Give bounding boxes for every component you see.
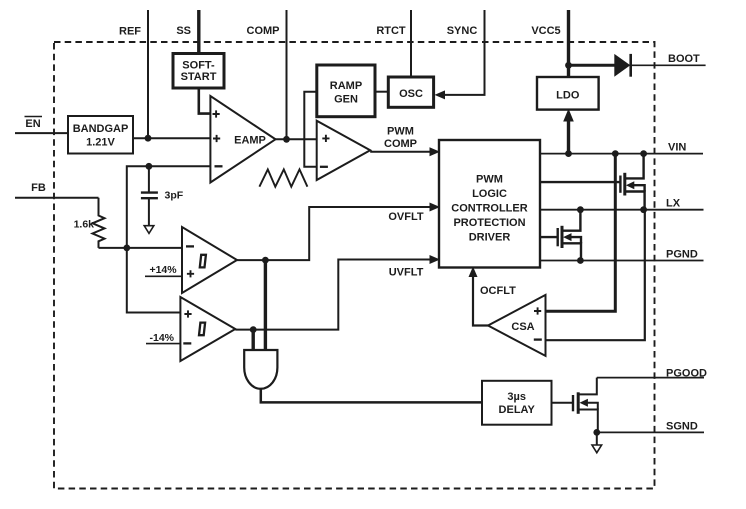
wire UVFLT from -14% comparator to PWM logic block xyxy=(235,260,431,330)
junction LX/low-side FET drain xyxy=(577,206,584,213)
node OVFLT label xyxy=(388,211,424,223)
wire RAMP GEN to PWM comparator - input xyxy=(304,92,317,167)
comparator +14% (OV) xyxy=(182,227,237,293)
arrowhead SYNC into OSC xyxy=(435,90,446,99)
svg-text:GEN: GEN xyxy=(334,94,358,106)
block BANDGAP 1.21V xyxy=(68,116,133,154)
wire COMP pin vertical xyxy=(286,10,288,140)
junction SGND/PGOOD FET source xyxy=(593,429,600,436)
wire PGOOD rail xyxy=(597,377,704,379)
svg-text:CSA: CSA xyxy=(511,321,534,333)
pin BOOT label xyxy=(668,53,700,65)
wire EN pin horizontal xyxy=(15,132,68,134)
pin SYNC label xyxy=(447,25,478,37)
wire VIN rail xyxy=(540,153,703,155)
wire PGND rail xyxy=(540,260,704,262)
svg-text:EAMP: EAMP xyxy=(234,135,266,147)
transistor Q2 low-side MOSFET xyxy=(558,210,581,261)
pin RTCT label xyxy=(376,25,406,37)
svg-text:RTCT: RTCT xyxy=(376,25,406,37)
op-amp CSA current sense amplifier xyxy=(488,295,546,356)
svg-text:PWM: PWM xyxy=(476,174,503,186)
pin SS label xyxy=(176,25,191,37)
arrowhead into LDO bottom xyxy=(563,109,574,122)
svg-text:3pF: 3pF xyxy=(165,189,184,201)
svg-text:OCFLT: OCFLT xyxy=(480,285,516,297)
svg-text:BOOT: BOOT xyxy=(668,53,700,65)
pin SGND label xyxy=(666,421,698,433)
junction VIN/CSA riser xyxy=(612,150,619,157)
pin LX label xyxy=(666,198,681,210)
wire gate drive to low-side FET xyxy=(540,236,558,238)
node UVFLT label xyxy=(389,266,424,278)
pin COMP label xyxy=(247,25,280,37)
wire SGND junction down to ground xyxy=(596,432,598,445)
svg-text:SYNC: SYNC xyxy=(447,25,478,37)
svg-text:SOFT-: SOFT- xyxy=(182,60,215,72)
svg-text:PROTECTION: PROTECTION xyxy=(453,217,525,229)
pin EN label with overline xyxy=(25,117,43,131)
svg-text:1.21V: 1.21V xyxy=(86,137,115,149)
label +14% with input stub xyxy=(145,264,182,276)
transistor Q1 high-side MOSFET xyxy=(620,154,644,210)
wire CSA + input from VIN (thick riser) xyxy=(546,154,616,312)
junction VIN/high-side FET drain xyxy=(640,150,647,157)
svg-text:CONTROLLER: CONTROLLER xyxy=(451,203,527,215)
pin PGOOD label xyxy=(666,367,707,379)
junction REF/BANDGAP xyxy=(145,135,152,142)
arrowhead OVFLT into PWM logic block xyxy=(430,203,441,212)
svg-text:UVFLT: UVFLT xyxy=(389,266,424,278)
capacitor C 3pF xyxy=(141,166,184,225)
block RAMP GEN xyxy=(317,65,375,117)
svg-text:DRIVER: DRIVER xyxy=(469,231,511,243)
svg-text:OVFLT: OVFLT xyxy=(388,211,424,223)
wire SGND rail xyxy=(597,431,704,433)
junction OVFLT to AND gate xyxy=(262,257,269,264)
wire RTCT pin vertical xyxy=(410,10,412,78)
svg-text:EN: EN xyxy=(25,118,40,130)
wire BANDGAP output to EAMP + input xyxy=(133,137,210,139)
junction FB node xyxy=(123,245,130,252)
label -14% with input stub xyxy=(146,332,180,344)
wire CSA output OCFLT to PWM logic block bottom xyxy=(473,276,488,326)
block 3us DELAY xyxy=(482,381,552,425)
svg-text:COMP: COMP xyxy=(247,25,280,37)
node OCFLT label xyxy=(480,285,516,297)
junction VCC5/BOOT xyxy=(565,62,572,69)
svg-text:1.6k: 1.6k xyxy=(74,219,95,231)
ground arrow below SGND xyxy=(592,445,602,453)
junction PGND/low-side source xyxy=(577,257,584,264)
wire SYNC pin vertical and horizontal into OSC xyxy=(443,10,485,95)
svg-text:+14%: +14% xyxy=(149,264,177,276)
wire CSA - input from LX xyxy=(546,210,645,341)
svg-text:SGND: SGND xyxy=(666,421,698,433)
svg-text:-14%: -14% xyxy=(149,332,174,344)
comparator -14% (UV) xyxy=(180,297,235,361)
svg-text:BANDGAP: BANDGAP xyxy=(73,123,129,135)
wire OVFLT from +14% comparator to PWM logic block xyxy=(237,207,431,260)
svg-text:START: START xyxy=(181,71,217,83)
wire EAMP output to PWM comparator + input xyxy=(276,138,317,140)
junction UVFLT to AND gate xyxy=(250,326,257,333)
junction LX/high-side source and CSA - riser xyxy=(640,206,647,213)
wire AND gate output to 3us delay block xyxy=(261,389,482,402)
arrowhead OCFLT into PWM logic block xyxy=(469,267,478,278)
wire FB node up and to EAMP - input xyxy=(127,166,211,248)
wire FB node to +14% comparator - input xyxy=(127,247,182,249)
junction VIN/LDO riser xyxy=(565,150,572,157)
arrowhead UVFLT into PWM logic block xyxy=(430,255,441,264)
wire RAMP GEN to OSC xyxy=(375,91,388,93)
block SOFT-START xyxy=(173,54,224,89)
svg-text:PGOOD: PGOOD xyxy=(666,367,707,379)
diode D1 bootstrap xyxy=(614,54,630,77)
block LDO xyxy=(537,77,599,110)
wire SS pin vertical (thick) xyxy=(197,10,200,55)
block OSC xyxy=(388,77,433,107)
wire LX rail xyxy=(540,209,704,211)
wire SOFT-START to EAMP + input xyxy=(199,88,211,114)
svg-text:FB: FB xyxy=(31,182,46,194)
wire VCC5 pin vertical (thick) xyxy=(567,10,570,78)
svg-text:LOGIC: LOGIC xyxy=(472,188,507,200)
wire PWM COMP output to PWM logic block xyxy=(370,151,431,153)
junction capacitor tap on EAMP - wire xyxy=(146,163,153,170)
ramp waveform symbol xyxy=(259,169,307,186)
svg-text:VCC5: VCC5 xyxy=(531,25,560,37)
op-amp EAMP xyxy=(210,96,275,183)
node PWM COMP label xyxy=(384,126,417,151)
pin FB label xyxy=(31,182,46,194)
wire resistor bottom to FB node xyxy=(99,247,127,249)
svg-text:VIN: VIN xyxy=(668,142,686,154)
arrowhead PWM COMP into PWM logic block xyxy=(430,147,441,156)
block PWM LOGIC CONTROLLER PROTECTION DRIVER xyxy=(439,140,540,268)
wire VIN to LDO with up arrow (thick) xyxy=(567,119,570,154)
pin VIN label xyxy=(668,142,686,154)
IC boundary dashed border xyxy=(54,42,655,489)
wire VCC5 junction to boot diode (thick) xyxy=(569,64,616,67)
wire gate drive to high-side FET xyxy=(540,181,620,183)
wire REF pin vertical xyxy=(147,10,149,138)
ground arrow below capacitor xyxy=(144,226,154,234)
svg-text:RAMP: RAMP xyxy=(330,80,362,92)
resistor 1.6k xyxy=(74,198,105,248)
pin REF label xyxy=(119,25,141,37)
wire diode cathode to BOOT pin xyxy=(631,64,706,66)
svg-text:SS: SS xyxy=(176,25,191,37)
svg-text:3µs: 3µs xyxy=(507,391,526,403)
wire FB pin horizontal xyxy=(15,197,99,199)
op-amp PWM comparator xyxy=(317,121,371,180)
svg-text:PWM: PWM xyxy=(387,126,414,138)
svg-text:PGND: PGND xyxy=(666,249,698,261)
transistor Q3 PGOOD MOSFET xyxy=(552,378,598,433)
pin PGND label xyxy=(666,249,698,261)
svg-text:LX: LX xyxy=(666,198,681,210)
junction COMP/EAMP output xyxy=(283,136,290,143)
svg-text:REF: REF xyxy=(119,25,141,37)
wire AND gate input from UVFLT junction (thick) xyxy=(251,330,254,351)
svg-text:COMP: COMP xyxy=(384,138,417,150)
wire FB node down and to -14% comparator + input xyxy=(127,248,181,313)
svg-text:LDO: LDO xyxy=(556,90,580,102)
svg-text:OSC: OSC xyxy=(399,88,423,100)
svg-text:DELAY: DELAY xyxy=(499,404,536,416)
pin VCC5 label xyxy=(531,25,560,37)
AND gate (fault combine) xyxy=(244,350,277,389)
wire AND gate input from OVFLT junction (thick) xyxy=(264,260,267,351)
